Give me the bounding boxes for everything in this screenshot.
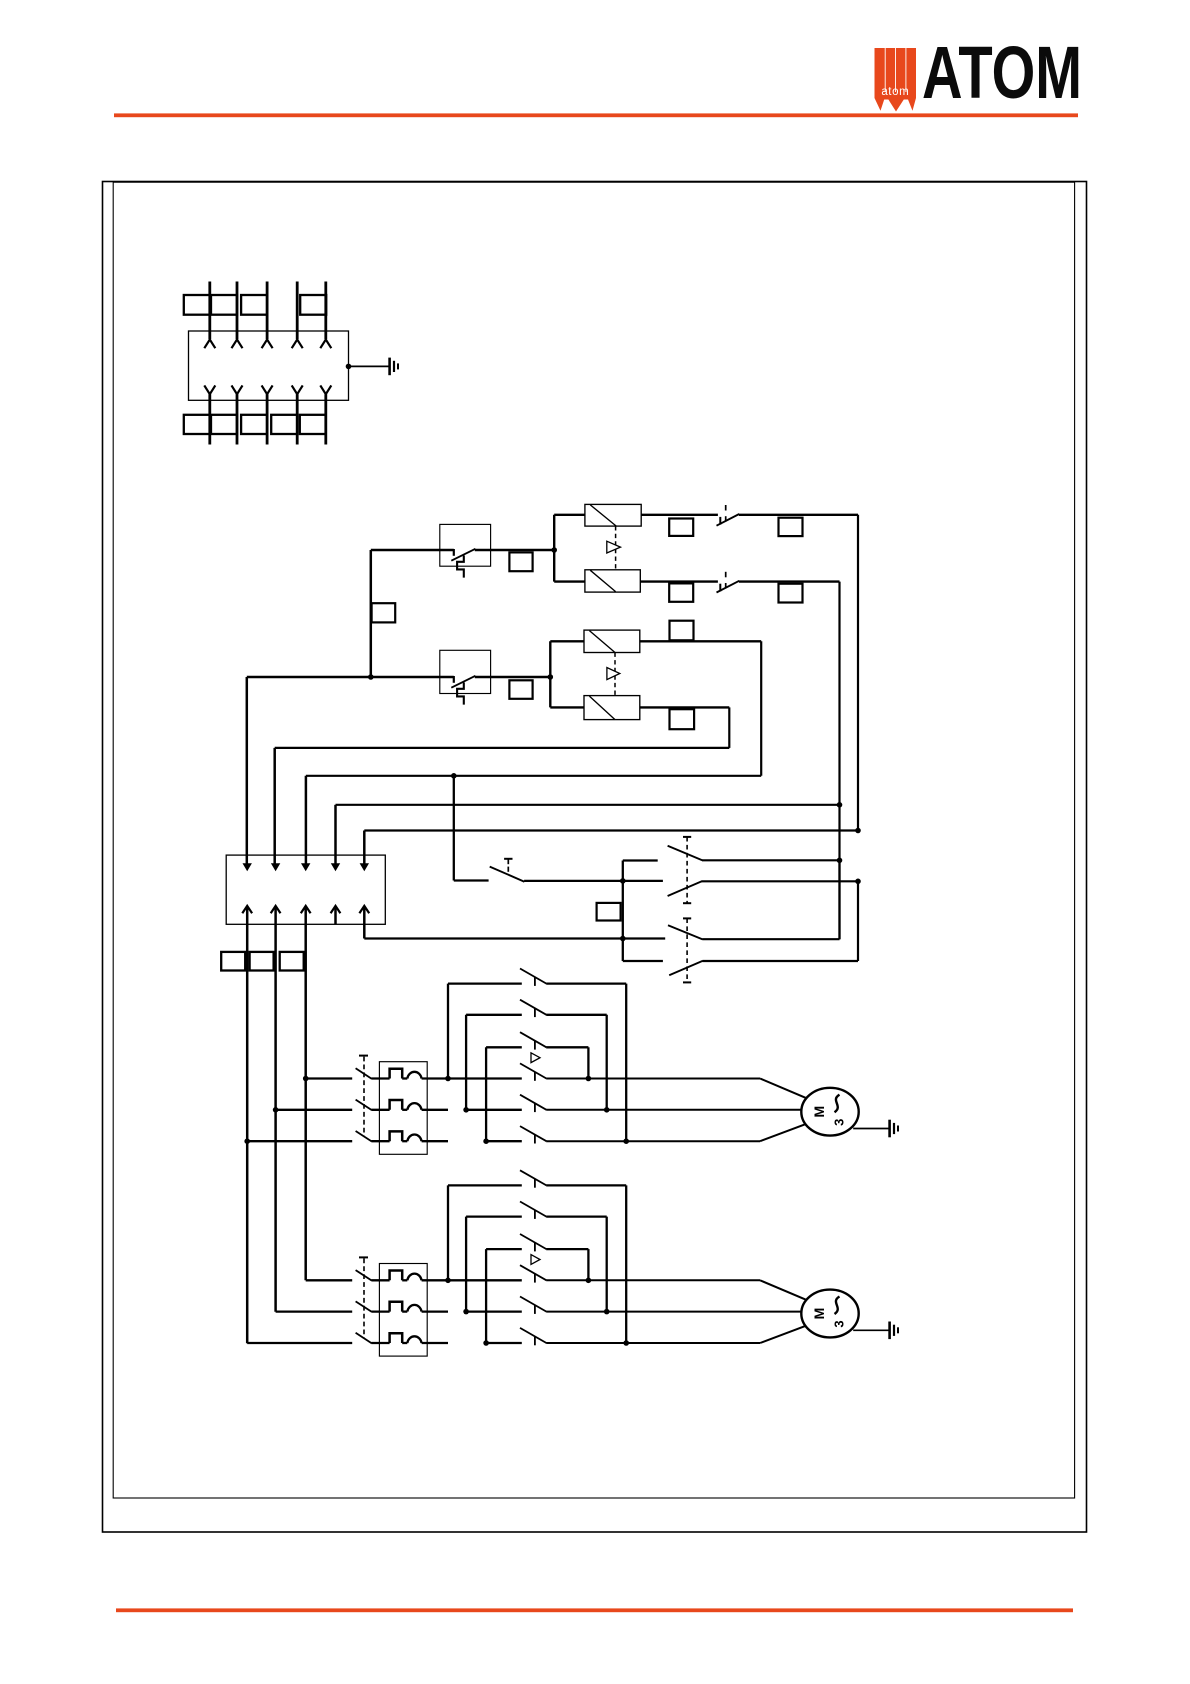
M2 disconnect blade 2 bbox=[356, 1301, 372, 1311]
node pin5 feed on bus B (dot) bbox=[855, 828, 861, 834]
svg-text:3: 3 bbox=[832, 1119, 847, 1126]
X2 output wire 1 bbox=[246, 924, 249, 1343]
M2 reverse branch C riser bbox=[485, 1249, 487, 1343]
X1 top socket pin 3 bbox=[262, 340, 273, 349]
M1 reverse branch B riser bbox=[465, 1015, 467, 1110]
M2 line L1 left stub bbox=[306, 1279, 353, 1281]
limit switch S2 blade bbox=[717, 581, 740, 593]
feed wire to X2 pin2 bbox=[273, 748, 276, 864]
M1 forward contact L3 blade bbox=[520, 1126, 546, 1141]
M1 motor lead V bbox=[546, 1109, 801, 1111]
X1 bottom terminal box 5 bbox=[300, 415, 326, 434]
M1 L3 wire to contact bbox=[486, 1140, 522, 1142]
aux bus vertical bbox=[622, 861, 624, 962]
M1 disconnect actuator (T + dashed) bbox=[359, 1055, 368, 1057]
svg-text:atom: atom bbox=[881, 86, 909, 98]
terminal box after S2 bbox=[779, 584, 803, 603]
wire S1 to right bus bbox=[739, 514, 858, 516]
aux contact Q1 right wire bbox=[702, 859, 840, 861]
M1 line L3 left stub bbox=[247, 1140, 352, 1142]
wire thermostat B1 input bbox=[371, 549, 454, 552]
door switch S3 thermal actuator bbox=[504, 858, 512, 860]
node on B2 input (dot) bbox=[368, 674, 374, 680]
M1 overload element 2 bbox=[390, 1100, 403, 1110]
X1 bottom terminal box 4 bbox=[271, 415, 297, 434]
X2 input arrow 5 bbox=[360, 863, 369, 871]
K3 route bus (horizontal) bbox=[306, 775, 761, 777]
branch wire to SSR1/SSR2 bbox=[553, 515, 555, 582]
X1 top terminal box 3 bbox=[241, 295, 267, 315]
X2 output arrow 2 bbox=[271, 906, 281, 913]
M2 line L2 left stub bbox=[276, 1310, 353, 1312]
M2 reverse branch A riser bbox=[447, 1185, 449, 1280]
wire S2 to right bus bbox=[739, 580, 840, 582]
M1 motor lead W bbox=[546, 1140, 760, 1142]
M1 disconnect blade 1 bbox=[356, 1068, 372, 1078]
SSR linkage 2 (dashed) bbox=[614, 653, 616, 696]
frame inner border bbox=[113, 182, 1074, 1498]
node M1 L3 split (dot) bbox=[483, 1138, 489, 1144]
thermostat B2 fixed contact stub bbox=[453, 676, 455, 683]
aux contact Q4 blade bbox=[669, 961, 702, 975]
M2 line L3 into overload bbox=[371, 1342, 389, 1344]
SSR K3 body bbox=[584, 630, 640, 652]
M2 reverse branch C out bbox=[546, 1248, 588, 1250]
X1 top socket pin 4 bbox=[292, 340, 303, 349]
M1 reverse contact C blade bbox=[520, 1032, 546, 1047]
terminal box after K1 bbox=[669, 519, 693, 536]
ATOM logo orange mark bbox=[875, 48, 917, 112]
terminal box after S1 bbox=[779, 518, 803, 536]
M2 line L3 left stub bbox=[247, 1342, 352, 1344]
X1 top socket pin 5 bbox=[320, 340, 331, 349]
K3 route down bbox=[760, 641, 762, 776]
X1 bottom plug pin 1 bbox=[204, 385, 215, 394]
node to door switch (dot) bbox=[451, 773, 457, 779]
M1 overload element 3 bbox=[390, 1131, 403, 1141]
node M1 B to L2 (dot) bbox=[604, 1107, 610, 1113]
M2 motor lead V bbox=[546, 1311, 801, 1313]
X1 bottom terminal box 2 bbox=[211, 415, 237, 434]
thermostat B2 trip element bbox=[457, 683, 464, 705]
M1 line L2 into overload bbox=[371, 1109, 389, 1111]
aux contact Q2 blade bbox=[668, 881, 702, 896]
limit switch S1 fixed contact tick bbox=[719, 517, 721, 525]
thermostat B1 trip element bbox=[457, 556, 464, 578]
SSR linkage 1 (dashed) bbox=[615, 526, 617, 570]
aux contact Q4 left stub bbox=[623, 960, 663, 962]
node M1 feed L1 (dot) bbox=[303, 1076, 309, 1082]
terminal box on B2 output bbox=[509, 680, 532, 699]
M1 reverse branch C riser bbox=[485, 1047, 487, 1141]
M2 contactor linkage triangle bbox=[531, 1255, 540, 1265]
X2 output arrow 5 bbox=[359, 906, 369, 913]
node M1 feed L3 (dot) bbox=[244, 1138, 250, 1144]
node M2 C to L1 (dot) bbox=[586, 1278, 592, 1284]
X2 input arrow 3 bbox=[301, 863, 310, 871]
X2 lower terminal box 2 bbox=[250, 952, 274, 971]
X1 top terminal box 5 bbox=[300, 295, 326, 315]
aux contact Q1 left stub bbox=[623, 859, 658, 861]
M1 reverse branch A out bbox=[546, 982, 626, 984]
aux linkage A (dashed with bars) bbox=[683, 836, 691, 838]
X1 top terminal box 2 bbox=[211, 295, 237, 315]
X2 output wire 5 to contact Q3 bbox=[363, 924, 366, 938]
M2 line L1 into overload bbox=[371, 1279, 389, 1281]
M1 contactor linkage triangle bbox=[531, 1053, 540, 1063]
M1 reverse contact B blade bbox=[520, 1000, 546, 1015]
X2 input arrow 1 bbox=[243, 863, 252, 871]
M1 reverse contact A blade bbox=[520, 969, 546, 984]
svg-text:ATOM: ATOM bbox=[922, 31, 1082, 114]
M1 forward contact L2 blade bbox=[520, 1095, 546, 1110]
wire into SSR K3 bbox=[550, 640, 584, 642]
terminal box after K3 bbox=[670, 621, 694, 641]
X1 top wire 5 bbox=[324, 282, 327, 340]
M2 reverse contact C blade bbox=[520, 1234, 546, 1249]
X1 bottom plug pin 5 bbox=[320, 385, 331, 394]
X2 input arrow 2 bbox=[271, 863, 280, 871]
thermostat B2 enclosure bbox=[440, 650, 491, 693]
K4 route bus (horizontal) bbox=[275, 747, 730, 749]
M2 disconnect actuator (T + dashed) bbox=[359, 1256, 368, 1258]
X1 top wire 3 bbox=[266, 282, 269, 340]
motor M1 (3~) bbox=[801, 1088, 858, 1136]
feed wire to X2 pin3 bbox=[305, 776, 308, 864]
X2 output arrow 1 bbox=[242, 906, 252, 913]
node M2 A to L3 (dot) bbox=[623, 1340, 629, 1346]
X1 top socket pin 1 bbox=[204, 340, 215, 349]
X1 bottom plug pin 3 bbox=[262, 385, 273, 394]
wire into SSR K1 bbox=[554, 514, 585, 516]
X1 top wire 2 bbox=[236, 282, 239, 340]
node M1 A to L3 (dot) bbox=[623, 1138, 629, 1144]
terminal box after K2 bbox=[669, 583, 693, 601]
M2 reverse branch B out bbox=[546, 1215, 607, 1217]
M1 forward contact L1 blade bbox=[520, 1063, 546, 1078]
feed wire to X2 pin4 bbox=[334, 805, 337, 864]
ground symbol (motor M1) bbox=[888, 1120, 891, 1138]
M2 L3 wire to contact bbox=[486, 1342, 522, 1344]
terminal block X1 body bbox=[189, 331, 349, 400]
M1 reverse branch A riser bbox=[447, 984, 449, 1079]
limit switch S2 fixed contact tick bbox=[719, 584, 721, 592]
SSR K1 body bbox=[585, 504, 641, 526]
M2 motor lead U bbox=[546, 1279, 760, 1281]
X2 output arrow 3 bbox=[301, 906, 311, 913]
X2 input arrow 4 bbox=[331, 863, 340, 871]
ground symbol (motor M2) bbox=[888, 1322, 891, 1340]
branch wire to SSR3/SSR4 bbox=[549, 641, 551, 707]
aux contact Q2 right wire bbox=[702, 880, 859, 882]
M1 L2 wire to contact bbox=[466, 1109, 522, 1111]
M2 overload relay body bbox=[379, 1264, 427, 1357]
M2 motor lead W bbox=[546, 1342, 760, 1344]
node after B1 (dot) bbox=[551, 547, 557, 553]
svg-text:3: 3 bbox=[832, 1320, 847, 1327]
terminal box on B1 output bbox=[509, 552, 532, 571]
X1 bottom terminal box 3 bbox=[241, 415, 267, 434]
SSR K4 body bbox=[584, 696, 640, 720]
X2 output wire 2 bbox=[274, 924, 277, 1311]
aux contact Q4 right wire bbox=[703, 960, 859, 962]
M2 disconnect blade 1 bbox=[356, 1270, 372, 1280]
X1 ground wire bbox=[349, 365, 389, 367]
X2 lower terminal box 3 bbox=[280, 952, 304, 971]
thermostat B1 blade bbox=[451, 549, 475, 561]
M2 reverse branch A out bbox=[546, 1184, 626, 1186]
wire into SSR K4 bbox=[550, 706, 584, 708]
terminal box on aux bus bbox=[597, 903, 621, 921]
limit switch S1 blade bbox=[717, 514, 740, 526]
wire B1 to node bbox=[475, 549, 554, 552]
terminal box after K4 bbox=[670, 709, 695, 729]
thermostat B1 fixed contact stub bbox=[453, 549, 455, 556]
SSR K2 body bbox=[585, 570, 640, 592]
ground symbol (X1) bbox=[388, 358, 391, 376]
M1 L1 wire to contact bbox=[448, 1077, 522, 1079]
M2 L1 wire to contact bbox=[448, 1279, 522, 1281]
M1 disconnect blade 2 bbox=[356, 1100, 372, 1110]
motor M1 ground wire bbox=[853, 1128, 889, 1130]
node Q1 on bus A (dot) bbox=[837, 858, 843, 864]
node S3 wire joins bus (dot) bbox=[620, 878, 626, 884]
SSR K2 output wire bbox=[640, 580, 718, 582]
node M1 L2 split (dot) bbox=[463, 1107, 469, 1113]
M2 forward contact L1 blade bbox=[520, 1265, 546, 1280]
frame outer border bbox=[103, 182, 1087, 1533]
M1 overload element 1 bbox=[390, 1069, 403, 1079]
node M2 B to L2 (dot) bbox=[604, 1309, 610, 1315]
M2 reverse branch B riser bbox=[465, 1217, 467, 1312]
M1 line L2 left stub bbox=[276, 1109, 353, 1111]
X1 bottom plug pin 2 bbox=[232, 385, 243, 394]
right bus B lower segment bbox=[857, 881, 859, 961]
wire B2 to node bbox=[475, 676, 551, 679]
wire into SSR K2 bbox=[554, 580, 585, 582]
X2 output wire 3 bbox=[304, 924, 307, 1280]
motor M2 ground wire bbox=[853, 1329, 889, 1331]
SSR K4 output wire bbox=[640, 706, 730, 708]
M2 overload element 2 bbox=[390, 1302, 403, 1312]
SSR K1 output wire bbox=[641, 514, 718, 516]
SSR linkage 2 triangle bbox=[607, 668, 620, 680]
M1 disconnect blade 3 bbox=[356, 1131, 372, 1141]
node M2 L3 split (dot) bbox=[483, 1340, 489, 1346]
node M1 C to L1 (dot) bbox=[586, 1076, 592, 1082]
aux contact Q3 right wire bbox=[703, 938, 840, 940]
M2 forward contact L2 blade bbox=[520, 1297, 546, 1312]
M1 motor lead U bbox=[546, 1078, 760, 1080]
node M2 L1 split (dot) bbox=[445, 1278, 451, 1284]
thermostat B2 blade bbox=[451, 676, 475, 688]
link wire B1-B2 (vertical) bbox=[370, 550, 373, 677]
limit switch S1 actuator dashes bbox=[725, 505, 727, 511]
M2 reverse contact B blade bbox=[520, 1202, 546, 1217]
svg-text:M: M bbox=[811, 1106, 827, 1118]
X2 output arrow 4 bbox=[331, 906, 341, 913]
footer orange rule bbox=[116, 1608, 1073, 1612]
X1 top terminal box 1 bbox=[184, 295, 210, 315]
X1 bottom terminal box 1 bbox=[184, 415, 210, 434]
header orange rule bbox=[114, 113, 1078, 117]
node after B2 (dot) bbox=[548, 674, 554, 680]
M2 disconnect blade 3 bbox=[356, 1333, 372, 1343]
X1 top wire 4 bbox=[296, 282, 299, 340]
SSR K3 output wire bbox=[640, 640, 761, 642]
motor M2 (3~) bbox=[801, 1290, 858, 1338]
M1 line L3 into overload bbox=[371, 1140, 389, 1142]
right bus A lower segment bbox=[838, 860, 840, 939]
M2 overload element 1 bbox=[390, 1271, 403, 1281]
right bus wire B (down) bbox=[838, 582, 840, 940]
X2 lower terminal box 1 bbox=[221, 952, 245, 971]
K4 route down bbox=[728, 707, 730, 748]
feed wire to X2 pin5 bbox=[363, 831, 366, 864]
connector X2 body bbox=[226, 855, 385, 924]
M1 reverse branch C out bbox=[546, 1046, 588, 1048]
node M1 feed L2 (dot) bbox=[273, 1107, 279, 1113]
wire thermostat B2 input bbox=[247, 676, 454, 679]
M1 overload relay body bbox=[379, 1062, 427, 1155]
X1 ground node dot bbox=[346, 364, 352, 370]
feed wire to X2 pin1 bbox=[246, 677, 249, 864]
aux contact Q1 blade bbox=[668, 846, 703, 861]
M1 reverse branch B out bbox=[546, 1014, 607, 1016]
M2 forward contact L3 blade bbox=[520, 1328, 546, 1343]
door switch S3 feed bbox=[453, 776, 455, 881]
M2 reverse contact A blade bbox=[520, 1170, 546, 1185]
M1 line L1 into overload bbox=[371, 1077, 389, 1079]
M2 L2 wire to contact bbox=[466, 1310, 522, 1312]
door switch S3 blade bbox=[490, 867, 525, 882]
M2 line L2 into overload bbox=[371, 1310, 389, 1312]
node Q2 on bus B (dot) bbox=[855, 879, 861, 885]
svg-text:M: M bbox=[811, 1308, 827, 1320]
M1 line L1 left stub bbox=[306, 1077, 353, 1079]
node M2 L2 split (dot) bbox=[463, 1309, 469, 1315]
X1 top socket pin 2 bbox=[232, 340, 243, 349]
X1 top wire 1 bbox=[208, 282, 211, 340]
SSR linkage 1 triangle bbox=[607, 541, 621, 553]
terminal box on link wire bbox=[372, 603, 396, 622]
wire S3 to contactor bus bbox=[524, 880, 663, 882]
aux contact Q3 blade bbox=[668, 925, 703, 939]
thermostat B1 enclosure bbox=[440, 524, 491, 566]
X1 bottom plug pin 4 bbox=[292, 385, 303, 394]
node M1 L1 split (dot) bbox=[445, 1076, 451, 1082]
M2 overload element 3 bbox=[390, 1333, 403, 1343]
node pin4 feed on bus A (dot) bbox=[837, 802, 843, 808]
right bus wire A (down) bbox=[857, 515, 859, 831]
node X2-5 wire joins bus (dot) bbox=[620, 936, 626, 942]
limit switch S2 actuator dashes bbox=[725, 572, 727, 578]
aux linkage B (dashed with bars) bbox=[683, 917, 691, 919]
